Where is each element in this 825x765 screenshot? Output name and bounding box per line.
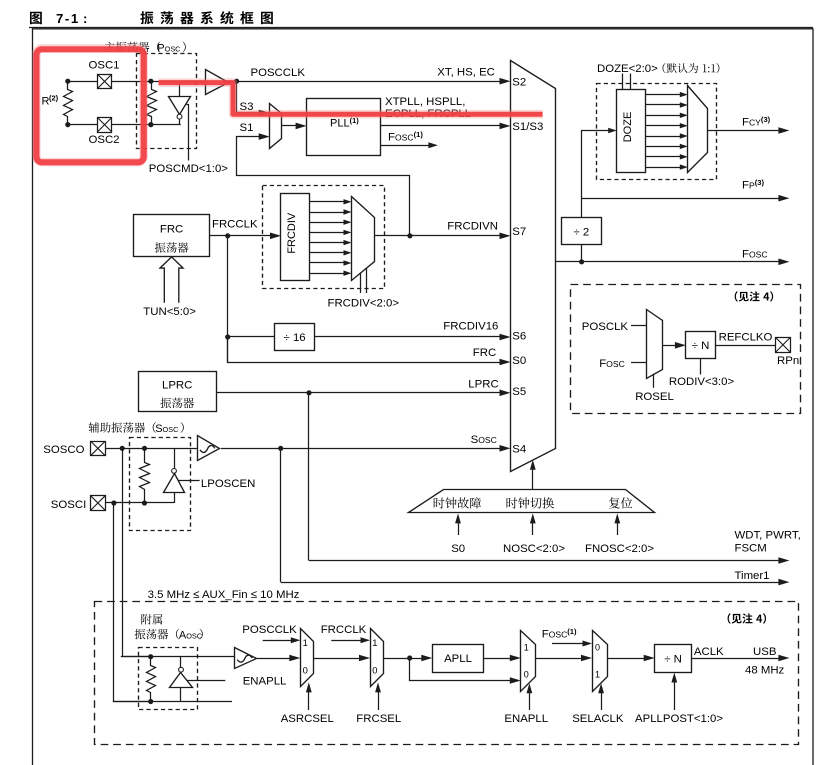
wire SOSC to S4 [221,448,502,450]
wire aux top rail [121,656,235,658]
wire LPRC to WDT [308,393,310,561]
svg-text:÷ 16: ÷ 16 [284,332,306,344]
block divide by N ref [686,332,716,359]
wire PLL to S1/S3 [381,125,502,127]
crystal pad OSC2 [98,118,112,133]
svg-text:1: 1 [524,643,529,653]
resistor Sosc feedback [140,449,150,503]
wires DOZE taps [645,94,681,96]
wire ENAPLL select [529,687,531,710]
dashed box DOZE [597,84,717,180]
svg-text:DOZE<2:0>: DOZE<2:0> [597,63,658,75]
dashed box Aosc [139,648,198,710]
wire POSCCLK stub aux [263,640,293,642]
node junction OSC2 left [65,122,70,127]
svg-text:OSC2: OSC2 [89,134,120,146]
wire LPRC to S5 [216,392,502,394]
svg-text:FRCDIV<2:0>: FRCDIV<2:0> [328,297,400,309]
label 默认为 1:1 [663,63,720,73]
svg-text:ACLK: ACLK [694,646,724,658]
svg-text:SELACLK: SELACLK [572,713,624,725]
svg-text:÷ 2: ÷ 2 [574,226,590,238]
node junction OSC1 left [65,79,70,84]
buffer Posc clock [206,70,229,95]
wire SELACLK select [601,687,603,710]
svg-text:3.5 MHz ≤ AUX_Fin ≤ 10 MHz: 3.5 MHz ≤ AUX_Fin ≤ 10 MHz [148,589,300,601]
svg-text:1: 1 [372,637,377,648]
annotation red rectangle [36,48,143,162]
pad SOSCI [91,496,106,511]
wire SOSCO down to aux [123,449,151,657]
wire FCY output [708,130,781,132]
dashed box auxiliary clock generator [95,602,799,745]
svg-text:USB: USB [753,646,776,658]
node junction Sosc timer tap [278,446,283,451]
svg-text:FNOSC<2:0>: FNOSC<2:0> [585,543,654,555]
svg-text:ENAPLL: ENAPLL [504,713,548,725]
svg-text:NOSC<2:0>: NOSC<2:0> [503,543,565,555]
svg-text:SOSCO: SOSCO [43,444,84,456]
block FRCDIV postscaler [281,194,310,281]
wire Sosc to Timer1 [280,448,282,582]
wire rosel mux to divN [662,345,677,347]
wire NOSC input [532,518,534,536]
label 见注4 ref [735,291,773,301]
wire OSC1 rail [68,81,206,83]
node junction LPRC [306,390,311,395]
svg-text:S1/S3: S1/S3 [512,121,543,133]
block DOZE divider [617,90,646,173]
wire aosc buffer to mux [257,658,292,660]
wire Fosc stub aux [552,643,585,645]
svg-text:POSCLK: POSCLK [582,321,629,333]
svg-text:FRC: FRC [473,347,496,359]
wire FNOSC input [617,518,619,536]
node junction APLL bypass [407,655,412,660]
svg-text:S6: S6 [512,331,526,343]
svg-text:FRC: FRC [160,224,183,236]
pad RPn [776,338,791,353]
svg-text:1: 1 [595,670,600,680]
wire POSCCLK to S2 [223,81,501,83]
dashed box Sosc [130,438,191,531]
svg-text:S7: S7 [512,226,526,238]
wire ROSEL select [653,374,655,388]
svg-text:POSC: POSC [157,42,180,54]
wire LPOSCEN enable [178,480,199,482]
wire FRCSEL select [378,687,380,711]
wire ACLK USB out [692,658,781,660]
wire FRCDIVN to S7 [374,235,502,237]
wire into DOZE [582,131,609,262]
mux ROSEL [647,310,663,379]
wire POSCLK into rosel mux [631,325,647,327]
svg-text:1: 1 [303,637,308,648]
mux SELACLK [593,631,608,692]
svg-text:FOSC: FOSC [742,248,768,260]
inverter Sosc [174,448,176,468]
svg-text:POSCMD<1:0>: POSCMD<1:0> [149,163,228,175]
mux ENAPLL [521,631,536,692]
wire switch to mux [532,463,534,489]
node junction aux bottom [148,699,153,704]
svg-text:LPRC: LPRC [162,380,192,392]
svg-text:POSCCLK: POSCCLK [242,624,297,636]
wire ASRCSEL select [308,687,310,711]
svg-text:APLL: APLL [444,653,472,665]
wire SOSCI rail [105,502,174,504]
node junction internal bottom [148,122,153,127]
node junction div16 tap [225,334,230,339]
op-amp PLL U1 [307,99,381,156]
crystal pad OSC1 [98,75,112,89]
title 振荡器系统框图 [140,11,273,24]
label 见注4 aux [728,613,766,623]
svg-text:ENAPLL: ENAPLL [243,675,287,687]
wire APLLPOST select [674,677,676,710]
svg-text:0: 0 [372,664,377,675]
wire selaclk out [607,658,645,660]
svg-text:0: 0 [524,670,529,680]
block divide by 2 [562,218,602,245]
dashed box reference clock [571,285,801,414]
svg-text:POSCCLK: POSCCLK [251,67,306,79]
svg-text:RODIV<3:0>: RODIV<3:0> [669,376,735,388]
svg-text:SOSC: SOSC [155,423,178,435]
node junction sosci resistor [142,500,147,505]
svg-text:0: 0 [595,643,600,653]
wire mux output Fosc [555,261,780,263]
svg-text:FRCDIV: FRCDIV [286,212,298,254]
buffer Aosc clock [235,648,257,669]
svg-text:WDT, PWRT,: WDT, PWRT, [735,529,801,541]
wire FP output [582,198,781,200]
wire OSC2 rail [68,124,181,126]
wire SOSCO rail [105,448,197,450]
inverter Aosc [180,657,182,668]
resistor internal feedback [147,82,157,125]
svg-text:SOSCI: SOSCI [51,499,86,511]
svg-text:Timer1: Timer1 [735,570,770,582]
wire S3 drop [237,82,263,113]
wire FRCCLK stub aux [331,640,362,642]
block APLL [433,645,484,673]
node junction Fosc [579,259,584,264]
label 附属 [141,614,162,624]
node junction sosco resistor [142,446,147,451]
svg-text:S2: S2 [512,76,526,88]
svg-text:FOSC: FOSC [599,358,625,370]
svg-text:ROSEL: ROSEL [635,391,674,403]
svg-text:XT, HS, EC: XT, HS, EC [437,66,495,78]
dashed box Posc [137,54,197,149]
node junction SOSCO drop [120,446,125,451]
wire SOSCI down to aux [114,503,151,702]
mux main clock select [511,61,556,472]
annotation red highlight path [159,83,543,115]
label 主振荡器（Posc） [104,42,160,53]
dashed box FRCDIV divider [263,186,385,289]
wire WDT PWRT FSCM [309,560,780,562]
label 振荡器（Aosc） [135,629,180,640]
svg-text:REFCLKO: REFCLKO [719,331,773,343]
svg-text:FRCCLK: FRCCLK [321,624,367,636]
block LPRC oscillator [139,372,217,412]
mux ASRCSEL [301,629,314,687]
mux FRCDIV select [352,197,375,281]
mux PLL input select [270,104,282,149]
svg-text:7-1: 7-1 [56,11,80,26]
svg-text:APLLPOST<1:0>: APLLPOST<1:0> [635,713,723,725]
wire ENAPLL enable aosc [187,680,225,682]
svg-text:÷ N: ÷ N [664,654,682,666]
svg-text:LPOSCEN: LPOSCEN [201,478,255,490]
bus arrow TUN tuning [160,257,183,303]
wire FRCDIV16 to S6 [315,336,502,338]
wire POSCMD enable [187,105,189,161]
svg-text:SOSC: SOSC [471,434,497,446]
wire APLL bypass [410,659,513,681]
svg-text:FRCDIV16: FRCDIV16 [443,321,498,333]
wire S0 fail input [458,518,460,536]
wire mux to PLL [282,125,298,127]
resistor R2 external [64,82,73,125]
wire APLL out [484,658,512,660]
wire FRCCLK to FRCDIV [210,235,272,237]
node junction FRCCLK [225,233,230,238]
title 图 7-1 caption [30,12,42,24]
svg-text:ASRCSEL: ASRCSEL [281,713,334,725]
title underline [29,27,813,29]
inverter Posc feedback [179,81,181,96]
svg-text:(2): (2) [49,94,59,103]
wires DOZE select [622,74,624,90]
svg-text::: : [83,11,87,26]
svg-text:FSCM: FSCM [735,542,767,554]
resistor Aosc feedback [147,657,156,702]
label 时钟故障 [434,497,481,508]
wire aux bottom rail [113,701,232,703]
wire S1 from FRCDIVN [237,137,410,236]
wires FRCDIV select lines [360,272,362,293]
label 辅助振荡器（Sosc） [89,422,156,433]
svg-text:48 MHz: 48 MHz [745,664,785,676]
block clock switch trapezoid [409,490,655,513]
svg-text:OSC1: OSC1 [89,59,120,71]
wire FRC to S0 [228,337,501,363]
node junction FRCDIVN [407,233,412,238]
wires FRCDIV taps to mux [310,201,346,203]
svg-text:FRCSEL: FRCSEL [356,713,401,725]
svg-text:S1: S1 [240,122,254,134]
wire asrcsel mux out [314,658,361,660]
wire into div16 [228,336,275,338]
wire REFCLKO to pad [715,345,777,347]
mux DOZE select [688,86,708,173]
wire frcsel out to APLL [384,658,424,660]
svg-text:FRCCLK: FRCCLK [212,218,258,230]
wire enapll out [536,658,583,660]
svg-text:S4: S4 [512,443,526,455]
svg-text:DOZE: DOZE [622,112,634,143]
buffer Sosc clock [198,436,220,461]
svg-text:LPRC: LPRC [468,379,498,391]
mux FRCSEL [371,629,384,687]
wire RODIV select [700,359,702,375]
block FRC oscillator [134,215,210,257]
wire Fosc stub [381,145,431,147]
svg-text:RPn: RPn [777,355,799,367]
svg-text:FRCDIVN: FRCDIVN [447,221,498,233]
svg-text:S0: S0 [451,543,465,555]
node junction internal top [148,79,153,84]
wire Timer1 [281,582,781,584]
wire Fosc into rosel mux [631,362,647,364]
svg-text:0: 0 [303,664,308,675]
block divide by N apllpost [655,645,692,673]
svg-text:TUN<5:0>: TUN<5:0> [143,306,196,318]
label 复位 [609,497,632,508]
svg-text:S0: S0 [512,355,526,367]
label 时钟切换 [507,497,555,508]
svg-text:÷ N: ÷ N [692,340,710,352]
node junction aux top [148,654,153,659]
wire FRC down to div16 [227,236,229,362]
node junction POSCCLK [234,79,239,84]
node junction SOSCI drop [111,500,116,505]
svg-text:S5: S5 [512,386,526,398]
block divide by 16 [275,324,315,351]
svg-text:AOSC: AOSC [179,629,202,641]
svg-text:XTPLL, HSPLL,: XTPLL, HSPLL, [385,96,465,108]
